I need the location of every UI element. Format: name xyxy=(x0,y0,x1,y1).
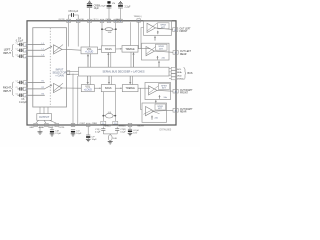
input R2: cap xyxy=(17,87,23,90)
svg-text:+LOUD: +LOUD xyxy=(84,89,92,92)
treble network left cap CT(L) xyxy=(95,127,105,134)
svg-text:FRONT: FRONT xyxy=(180,93,189,95)
capacitor CP 10uF bottom xyxy=(86,126,97,141)
op-amp U1 left selector amp xyxy=(53,45,66,54)
output stage RF box xyxy=(145,83,173,100)
svg-text:C1: C1 xyxy=(15,43,17,45)
svg-text:BUS: BUS xyxy=(188,72,193,75)
svg-text:CB(TR): CB(TR) xyxy=(58,19,65,21)
wire node C to bottom pin xyxy=(102,116,104,122)
bus pin SDA xyxy=(171,71,176,74)
svg-text:0.1µF: 0.1µF xyxy=(120,132,126,134)
wire TREB2 to output stages xyxy=(138,87,150,89)
brace BUS xyxy=(184,68,187,80)
svg-text:OUT LEFT: OUT LEFT xyxy=(180,51,192,53)
wire U1 out to VOL1 xyxy=(67,48,82,51)
pin box bottom 14 xyxy=(34,123,38,126)
resistor 5.6K vertical xyxy=(108,134,117,142)
svg-text:0.22µF: 0.22µF xyxy=(19,101,27,104)
input L1: wire to selector xyxy=(27,44,45,46)
svg-text:BASS: BASS xyxy=(105,87,112,90)
pin box bottom 13 xyxy=(45,123,49,126)
svg-text:RAL: RAL xyxy=(81,18,85,21)
svg-text:2.2µF: 2.2µF xyxy=(55,133,61,135)
ground stub bottom left xyxy=(38,127,43,135)
pin OUT RIGHT FRONT xyxy=(173,89,178,93)
wire top pin to VOL1 xyxy=(89,23,91,47)
switch arm left channel xyxy=(44,46,52,50)
label OUT LEFT FRONT xyxy=(180,28,192,33)
pin box top treb xyxy=(137,19,141,22)
svg-text:OUT RIGHT: OUT RIGHT xyxy=(180,90,193,92)
wire pin 8 down xyxy=(68,23,70,47)
wire TREB area down to node D xyxy=(114,92,116,116)
node dot right xyxy=(115,28,117,30)
wire branch down to SPKR ATT RR xyxy=(141,88,143,109)
svg-text:SERIAL BUS DECODER + LATCHES: SERIAL BUS DECODER + LATCHES xyxy=(102,71,144,74)
arrow decoder to VOL2 xyxy=(87,76,91,85)
node dot right lower xyxy=(114,115,116,117)
label OUT RIGHT FRONT xyxy=(180,90,193,95)
switch arm right channel xyxy=(44,85,52,89)
treble network right cap CT(R) xyxy=(115,127,126,134)
pin OUT LEFT REAR xyxy=(173,51,178,55)
input R3: pin box xyxy=(23,94,27,97)
bottom pin labels COUT CREF xyxy=(80,123,98,125)
svg-text:2.2µF: 2.2µF xyxy=(125,6,132,8)
wire treble pin TREB(L) xyxy=(138,22,140,48)
node dot left xyxy=(101,28,103,30)
svg-text:CREF: CREF xyxy=(92,123,98,125)
svg-text:0.1µF: 0.1µF xyxy=(95,132,101,134)
svg-text:REAR: REAR xyxy=(180,53,187,56)
block BASS right xyxy=(101,85,115,92)
svg-text:10K: 10K xyxy=(108,32,112,34)
svg-text:REAR: REAR xyxy=(180,111,187,114)
wire pin 9 down xyxy=(77,23,79,47)
wire BASS2 to TREB2 with arrow xyxy=(115,88,122,90)
IC boundary xyxy=(27,21,176,125)
capacitor on VS line xyxy=(107,5,112,8)
capacitor 2.2uF xyxy=(118,4,123,19)
svg-text:TREBLE: TREBLE xyxy=(125,48,135,51)
pin box top 8 xyxy=(67,19,71,22)
input R1: wire to selector xyxy=(27,81,45,83)
svg-text:TREB(L): TREB(L) xyxy=(133,16,141,18)
svg-text:+LOUD: +LOUD xyxy=(85,51,93,54)
pin box bottom 8 xyxy=(86,123,90,126)
input L2: wire to selector xyxy=(27,49,45,51)
capacitor 4.7uF xyxy=(128,127,140,136)
svg-text:C4: C4 xyxy=(15,81,17,83)
arrow into RF box from below xyxy=(155,100,157,103)
svg-text:VDD: VDD xyxy=(177,75,182,77)
svg-text:SCL: SCL xyxy=(177,69,182,71)
svg-text:5.6K: 5.6K xyxy=(113,138,118,140)
svg-text:BASS: BASS xyxy=(105,48,112,51)
bottom labels right group xyxy=(137,125,144,127)
resistor R loudness right (internal) xyxy=(103,113,115,118)
wire top pin to TREB1 xyxy=(130,22,132,45)
svg-text:CR(TL): CR(TL) xyxy=(93,19,99,21)
label CREF 10uF xyxy=(94,5,101,10)
svg-text:TREB(L): TREB(L) xyxy=(103,125,111,127)
pin box bottom mute xyxy=(128,123,132,126)
output stage LR box xyxy=(142,43,174,60)
svg-text:2db: 2db xyxy=(164,97,168,99)
wire VOL2 to BASS2 with arrow xyxy=(94,88,101,90)
input L2: pin box xyxy=(23,49,27,52)
svg-text:SDA: SDA xyxy=(177,71,182,74)
block OUTPUT xyxy=(37,114,52,121)
block VOL+LOUD left xyxy=(81,47,98,54)
svg-text:TREB(R): TREB(R) xyxy=(118,125,126,127)
bus pin DGND xyxy=(171,77,176,80)
bottom pin labels left group xyxy=(29,126,64,129)
wire branch up to SPKR ATT LF xyxy=(141,28,144,49)
label OUT RIGHT REAR xyxy=(180,109,193,114)
wire pin to resistor node B xyxy=(115,23,117,30)
svg-text:10µF: 10µF xyxy=(94,8,100,10)
bus pin VDD xyxy=(171,74,176,77)
svg-text:AGND: AGND xyxy=(39,126,45,129)
input R2: wire to selector xyxy=(27,88,45,90)
svg-text:10µF: 10µF xyxy=(76,133,82,135)
input R3: cap xyxy=(17,94,23,97)
input L1: cap xyxy=(17,43,23,46)
svg-text:COUT: COUT xyxy=(80,123,86,125)
ground treble network xyxy=(108,142,113,144)
input L3: cap xyxy=(17,55,23,58)
svg-text:VS: VS xyxy=(112,3,115,5)
svg-text:DGND: DGND xyxy=(177,79,184,81)
block TREBLE right xyxy=(122,85,138,92)
output stage LF box xyxy=(144,21,173,35)
brace right input xyxy=(11,82,13,96)
wire node A down to BASS1 xyxy=(101,29,103,46)
pin box top loud R xyxy=(114,19,118,22)
bus pin SCL xyxy=(171,67,176,70)
wire node B down to BASS1 xyxy=(115,29,117,46)
wires OUTPUT to bottom pins xyxy=(36,120,57,123)
svg-text:C2: C2 xyxy=(15,48,17,50)
wire TREB1 to output stages xyxy=(138,48,150,50)
svg-text:OUT LEFT: OUT LEFT xyxy=(180,28,192,30)
wires selector to OUTPUT xyxy=(40,107,48,114)
svg-text:OUTG: OUTG xyxy=(59,127,65,129)
arrow decoder to TREB1 xyxy=(131,52,135,67)
input R2: pin box xyxy=(23,87,27,90)
svg-text:2db: 2db xyxy=(162,57,166,59)
wire decoder area to bottom pin 9 xyxy=(72,74,74,127)
input R1: pin box xyxy=(23,81,27,84)
wire BASS2 down to node C xyxy=(102,92,104,116)
svg-text:10V: 10V xyxy=(133,132,137,134)
svg-text:C3: C3 xyxy=(15,54,17,56)
input L3: pin box xyxy=(23,55,27,58)
arrow into LF box xyxy=(154,36,156,41)
pin OUT RIGHT REAR xyxy=(173,109,178,113)
arrow decoder to LR box xyxy=(158,61,160,68)
svg-text:INPUT: INPUT xyxy=(3,89,11,93)
pin box top CREF xyxy=(88,19,92,22)
capacitor 10uF out xyxy=(71,130,82,136)
op-amp U2 right selector amp xyxy=(53,83,81,92)
svg-text:0.22µF: 0.22µF xyxy=(99,6,107,8)
svg-text:CMUT: CMUT xyxy=(48,127,54,129)
arrow decoder to BASS2 xyxy=(108,76,112,85)
node dot left lower xyxy=(103,115,105,117)
svg-text:D97AU805: D97AU805 xyxy=(160,129,172,132)
svg-text:C6: C6 xyxy=(15,93,17,95)
brace left input xyxy=(11,44,13,57)
label OUT LEFT REAR xyxy=(180,51,192,56)
pin box top 2.2uF xyxy=(119,19,123,22)
capacitor CM 2.2uF xyxy=(50,127,62,137)
svg-text:OUTPUT: OUTPUT xyxy=(39,116,50,119)
capacitor CREF xyxy=(87,3,92,19)
selector internal dashed divider xyxy=(49,28,51,107)
svg-text:2db: 2db xyxy=(155,118,159,120)
svg-text:SMUTE: SMUTE xyxy=(137,125,144,127)
pin box 10 bottom xyxy=(113,121,118,124)
bottom labels TREB(L) TREB(R) xyxy=(103,125,126,127)
block BASS left xyxy=(102,46,116,53)
svg-text:GND: GND xyxy=(29,127,34,129)
input R1: cap xyxy=(17,81,23,84)
svg-text:OUT RIGHT: OUT RIGHT xyxy=(180,109,193,111)
input selector box xyxy=(33,28,67,107)
svg-text:10µF: 10µF xyxy=(92,139,98,141)
label RIGHT INPUT xyxy=(3,86,12,93)
ground 2.2uF cap xyxy=(118,2,123,4)
svg-text:INPUT: INPUT xyxy=(3,51,11,55)
svg-text:FRONT: FRONT xyxy=(180,31,189,33)
arrow decoder to TREB2 xyxy=(129,76,133,85)
svg-text:TREBLE: TREBLE xyxy=(126,87,136,90)
svg-text:+ GAIN: + GAIN xyxy=(55,73,64,77)
pin box bottom 9 xyxy=(71,123,75,126)
label CIN 0.22uF (below right group) xyxy=(19,98,27,104)
wire VOL1 to BASS1 with arrow xyxy=(98,49,102,51)
wire pin to resistor node A xyxy=(101,23,103,30)
input L1: pin box xyxy=(23,43,27,46)
pin OUT LEFT FRONT xyxy=(173,28,178,32)
arrow decoder to VOL1 xyxy=(87,54,91,67)
pin box 11 bottom xyxy=(101,121,106,124)
pin box bottom 12 xyxy=(55,123,59,126)
svg-text:CB 0.1µF: CB 0.1µF xyxy=(68,11,78,13)
label LEFT INPUT xyxy=(3,48,11,55)
resistor R loudness left (internal) xyxy=(102,28,116,31)
ground CREF xyxy=(87,1,92,3)
input L3: wire to selector xyxy=(27,55,45,57)
block VOL+LOUD right xyxy=(81,85,94,92)
capacitor CB bridging pins 8-9 xyxy=(69,13,79,19)
label CIN 0.22uF (top of left group) xyxy=(16,37,24,43)
input R3: wire to selector xyxy=(27,94,45,96)
wire decoder to bottom edge xyxy=(77,76,79,125)
wire selector to decoder xyxy=(67,71,79,75)
input L2: cap xyxy=(17,49,23,52)
label INPUT SELECTOR + GAIN xyxy=(53,67,67,77)
arrow decoder to BASS1 xyxy=(107,52,111,67)
wire BASS1 to TREB1 with arrow xyxy=(116,48,123,50)
block TREBLE left xyxy=(122,46,138,53)
supply VS xyxy=(107,1,115,19)
pin box top VS xyxy=(107,19,111,22)
pin box top loud L xyxy=(100,19,104,22)
pin box top 9 xyxy=(76,19,80,22)
output stage RR box xyxy=(142,103,173,122)
wire node D to bottom pin xyxy=(114,116,116,122)
treble network join wire xyxy=(103,133,117,135)
block SERIAL BUS DECODER + LATCHES xyxy=(79,67,170,76)
svg-text:C5: C5 xyxy=(15,87,17,89)
